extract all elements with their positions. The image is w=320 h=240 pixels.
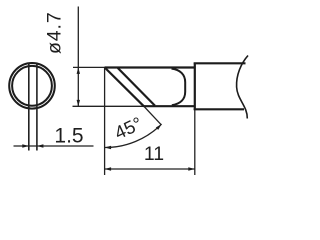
knife edge left chord line <box>28 63 30 151</box>
bevel boundary curve (D) <box>172 69 186 106</box>
extension line top (dia 4.7) <box>73 66 105 68</box>
sleeve bottom edge <box>194 108 244 110</box>
arrow 11 right <box>188 167 195 170</box>
dimension line 1.5 <box>14 145 94 147</box>
svg-text:1.5: 1.5 <box>54 125 83 148</box>
dimension line 11 <box>105 168 195 170</box>
front view outer circle <box>9 63 55 109</box>
step vertical (tip end face) <box>194 63 196 110</box>
knife edge right chord line <box>36 63 38 151</box>
sleeve top edge <box>194 62 246 64</box>
front view inner circle <box>12 66 52 106</box>
extension line bottom (dia 4.7) <box>73 105 145 107</box>
svg-text:11: 11 <box>144 143 164 165</box>
arrow 1.5 left <box>22 144 29 147</box>
45deg dimension arc <box>105 124 162 147</box>
blade second bevel line <box>118 68 155 106</box>
svg-text:ø4.7: ø4.7 <box>44 11 66 54</box>
break line S-curve <box>237 56 248 119</box>
arrow arc bottom (points left) <box>105 146 112 149</box>
extension line right (11) <box>194 110 196 175</box>
extension line from blade point down <box>104 68 106 175</box>
thin extension of blade edge <box>144 106 161 124</box>
blade 45deg edge <box>105 68 144 107</box>
dimension line dia 4.7 vertical <box>77 7 79 107</box>
arrow dia4.7 down <box>77 100 80 107</box>
arrow arc upper (points up-right) <box>156 124 162 130</box>
tip top edge <box>105 66 196 68</box>
arrow 1.5 right <box>37 144 44 147</box>
arrow dia4.7 up <box>77 67 80 74</box>
tip bottom edge <box>144 105 196 107</box>
arrow 11 left <box>105 167 112 170</box>
